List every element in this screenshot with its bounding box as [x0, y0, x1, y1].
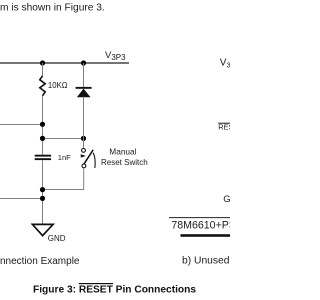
wire switch bottom lead and corner to left: [43, 168, 84, 190]
svg-text:Figure 3: RESET Pin Connection: Figure 3: RESET Pin Connections: [33, 285, 196, 296]
chip U1 label underline: [181, 234, 231, 237]
svg-text:b) Unused: b) Unused: [182, 255, 230, 266]
wire cap bottom lead down to GND: [42, 160, 44, 224]
wire diode bottom lead: [83, 97, 85, 139]
svg-text:Connection Example: Connection Example: [0, 256, 80, 267]
wire RESET stub to left edge: [0, 124, 43, 126]
wire GND stub to left edge: [0, 198, 43, 200]
svg-text:Reset Switch: Reset Switch: [101, 158, 148, 167]
switch SW1 top contact circle: [82, 149, 86, 153]
switch SW1 actuator arrowhead: [81, 154, 86, 157]
wire chip box bottom edge right subfigure: [169, 217, 230, 219]
svg-text:1nF: 1nF: [58, 153, 71, 162]
node junction dot at diode top: [81, 60, 86, 65]
node junction dot switch return: [40, 187, 45, 192]
switch SW1 bottom contact circle: [82, 164, 86, 168]
svg-text:RESET: RESET: [218, 123, 230, 132]
svg-text:Manual: Manual: [109, 146, 136, 156]
ground symbol: [32, 224, 53, 235]
figure caption RESET overbar: [79, 283, 113, 284]
wire V3P3 top rail: [0, 62, 129, 64]
switch SW1 motion arc: [93, 153, 95, 168]
svg-text:m is shown in Figure 3.: m is shown in Figure 3.: [0, 3, 105, 14]
capacitor C1 bottom plate: [35, 158, 51, 160]
svg-text:GND: GND: [48, 234, 66, 243]
wire resistor bottom lead down to cap: [42, 96, 44, 155]
diode D1 cathode bar: [76, 87, 92, 89]
svg-text:10KΩ: 10KΩ: [48, 81, 68, 90]
capacitor C1 top plate: [35, 155, 51, 157]
node RESET pin label right subfigure (overbar): [218, 122, 230, 124]
resistor 10K zigzag: [40, 76, 45, 96]
node junction dot RESET stub: [40, 122, 45, 127]
node junction dot cross link right: [81, 136, 86, 141]
svg-text:78M6610+PSU: 78M6610+PSU: [171, 219, 230, 231]
wire cross link to diode/switch: [43, 138, 84, 140]
node junction dot cross link left: [40, 136, 45, 141]
wire diode top lead: [83, 63, 85, 87]
switch SW1 blade: [83, 150, 93, 165]
wire resistor top lead: [42, 63, 44, 76]
node junction dot GND stub: [40, 196, 45, 201]
node junction dot at resistor top: [40, 60, 45, 65]
wire switch top lead: [83, 139, 85, 149]
diode D1 triangle: [77, 89, 91, 98]
svg-text:GND: GND: [223, 194, 230, 205]
